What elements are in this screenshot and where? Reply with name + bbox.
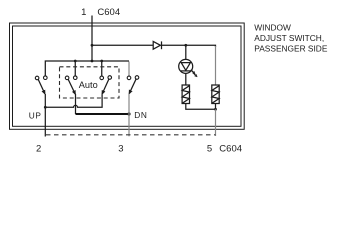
node: bus junction pole 3: [100, 60, 103, 63]
wire: under R2 to junction: [215, 104, 217, 110]
switch pole 3 terminals: [100, 76, 112, 80]
svg-text:C604: C604: [97, 7, 120, 18]
node: bus junction pole 2: [74, 60, 77, 63]
dashed Auto detent box: [60, 67, 120, 98]
svg-text:3: 3: [118, 143, 123, 154]
dashed connector line C604: [46, 134, 216, 136]
node: junction above pin 5: [214, 108, 217, 111]
wire: LED branch down: [185, 45, 187, 59]
wire (gray): pole 4 down to pin 3: [128, 94, 130, 137]
wire: diode cathode to right limb: [162, 45, 216, 47]
wire: top bus of switch poles: [45, 61, 129, 76]
wire (inactive, gray): down to resistor R2: [215, 46, 217, 85]
switch component outline (inner border): [13, 26, 242, 126]
switch pole 4 terminals: [127, 76, 139, 80]
wire (gray): bus end down to pole 4: [128, 62, 130, 76]
diode D1: [153, 41, 161, 49]
switch pole 1 lever: [38, 79, 45, 93]
svg-text:Auto: Auto: [79, 80, 98, 90]
svg-text:1: 1: [81, 7, 86, 18]
switch pole 2 lever: [68, 79, 75, 94]
svg-text:WINDOW: WINDOW: [254, 23, 291, 33]
wire: pole 1 to UP node and pin 2: [44, 94, 46, 137]
resistor R2 (right winding): [212, 85, 219, 104]
switch pole 1 terminals: [35, 76, 47, 80]
svg-text:ADJUST SWITCH,: ADJUST SWITCH,: [254, 33, 324, 43]
LED indicator lamp: [179, 59, 198, 77]
svg-text:UP: UP: [29, 110, 42, 120]
wire: pole 2 down to DN bus: [75, 94, 77, 114]
wire: UP bus with hop to pole 3: [45, 94, 102, 107]
node: bus junction feed: [91, 60, 94, 63]
wire: stub to pole 2: [74, 61, 76, 76]
svg-text:DN: DN: [134, 110, 147, 120]
node: junction of feed and diode branch: [91, 44, 94, 47]
wire: DN bus (thick): [76, 113, 130, 115]
wire: LED to resistor R1: [185, 73, 187, 85]
resistor R1 (left winding): [182, 85, 189, 104]
wire: pin 1 feed into switch: [91, 16, 93, 62]
svg-text:5: 5: [207, 143, 212, 154]
svg-text:PASSENGER SIDE: PASSENGER SIDE: [254, 43, 328, 53]
switch component outline (outer border): [10, 23, 245, 129]
wire: branch to diode: [92, 44, 153, 46]
svg-text:2: 2: [36, 143, 41, 154]
switch pole 3 lever: [102, 79, 109, 94]
component title text: [254, 23, 328, 54]
node: junction LED branch: [184, 44, 187, 47]
wire (inactive, gray): down to pin 5: [215, 109, 217, 136]
switch pole 4 lever: [129, 79, 136, 93]
switch pole 2 terminals: [65, 76, 77, 80]
node: UP junction: [44, 106, 47, 109]
svg-text:C604: C604: [219, 143, 242, 154]
wire: stub to pole 3: [101, 61, 103, 76]
node: DN junction: [127, 112, 130, 115]
wire: under R1 to junction: [186, 104, 216, 110]
